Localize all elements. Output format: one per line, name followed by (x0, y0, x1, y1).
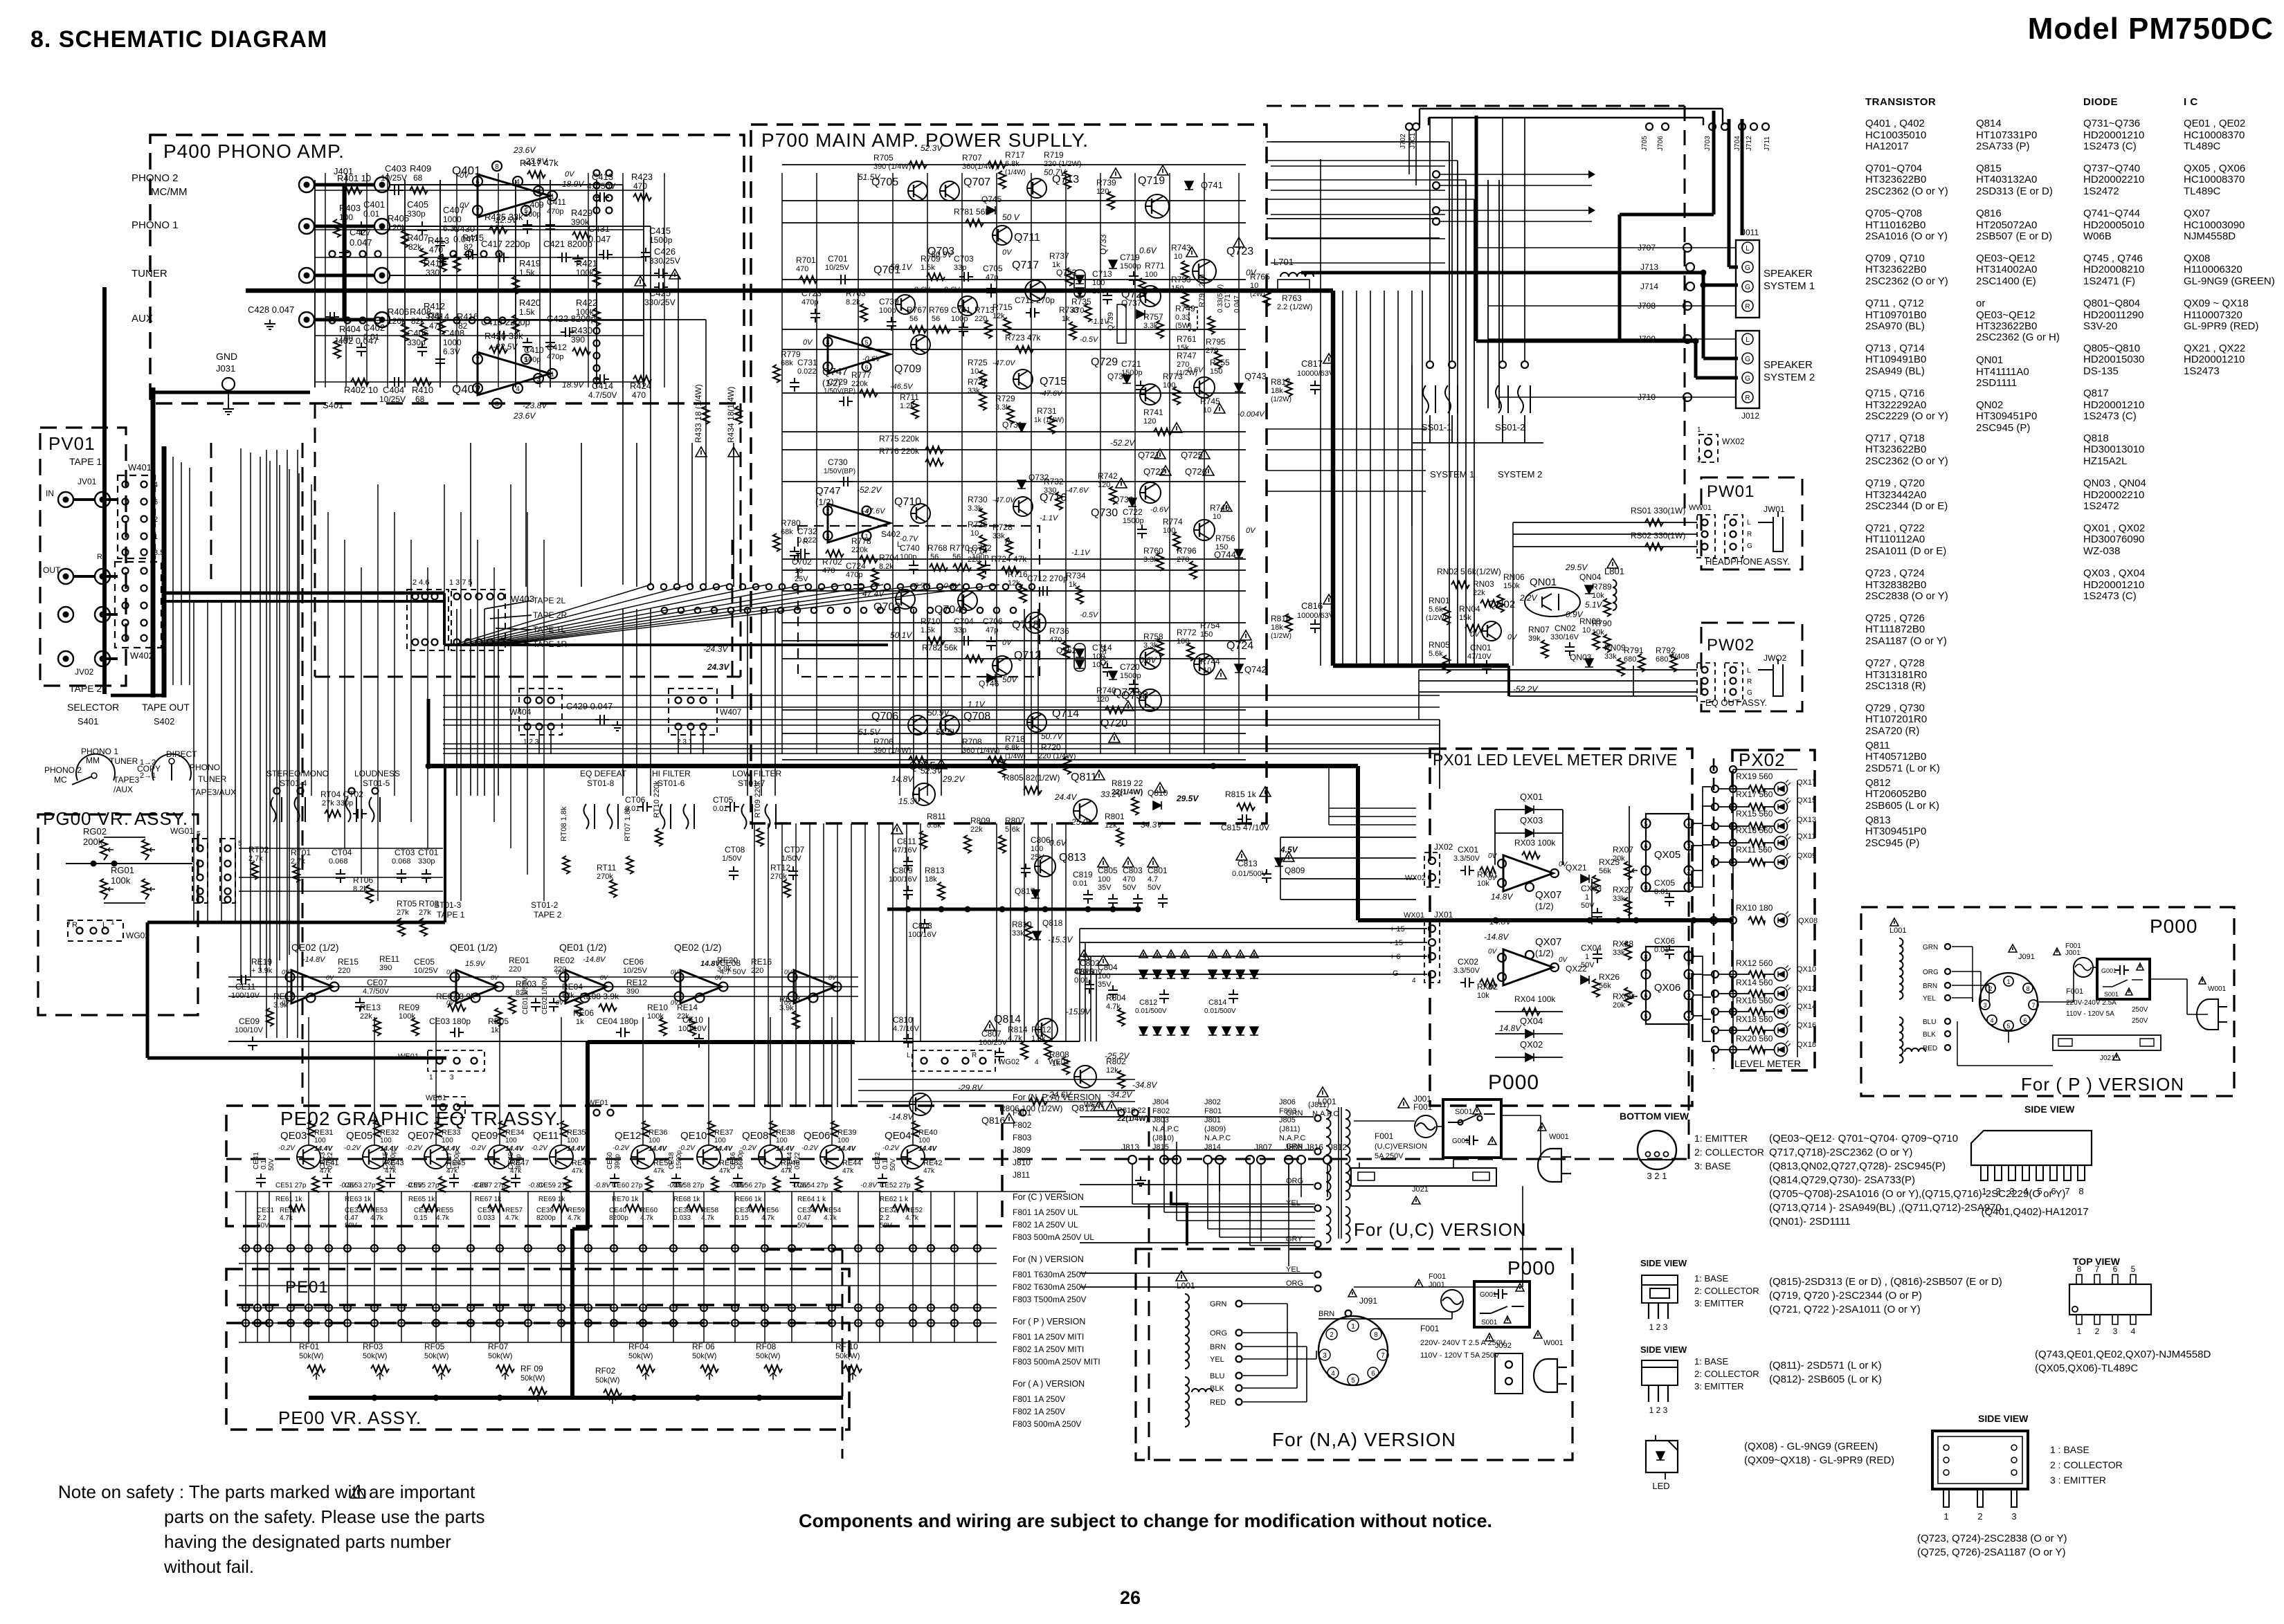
svg-text:F802: F802 (1152, 1107, 1170, 1115)
svg-text:0.01/500V: 0.01/500V (1204, 1007, 1236, 1015)
contact (832, 584, 837, 590)
wire (2008, 1031, 2009, 1043)
pin (1730, 971, 1737, 978)
jumper coil P (1905, 1048, 1925, 1052)
svg-text:/AUX: /AUX (114, 785, 133, 794)
svg-text:HT107331P0: HT107331P0 (1976, 129, 2037, 141)
svg-text:2: 2 (1977, 1511, 1982, 1522)
svg-text:R717: R717 (1005, 150, 1025, 160)
svg-text:0.1: 0.1 (260, 1160, 268, 1169)
svg-text:QX21: QX21 (1566, 863, 1587, 873)
contact (375, 251, 381, 257)
svg-text:1: 1 (1585, 953, 1589, 961)
svg-text:2: COLLECTOR: 2: COLLECTOR (1694, 1147, 1764, 1158)
svg-text:P000: P000 (1488, 1071, 1539, 1094)
contact (594, 378, 600, 384)
svg-text:C719: C719 (1120, 253, 1140, 262)
wire p400 inner (539, 173, 541, 387)
wire na (1243, 1387, 1297, 1389)
svg-text:GND: GND (216, 351, 237, 362)
svg-text:18k: 18k (1271, 623, 1283, 632)
svg-text:F001: F001 (2066, 987, 2083, 996)
junction (91, 861, 97, 867)
pin (141, 603, 147, 609)
svg-text:For ( P ) VERSION: For ( P ) VERSION (1013, 1317, 1085, 1326)
svg-text:14.8V: 14.8V (1499, 1023, 1521, 1033)
svg-text:PG00 VR. ASSY.: PG00 VR. ASSY. (43, 808, 188, 829)
svg-text:27k: 27k (419, 909, 431, 917)
wire ss01 up (1524, 118, 1525, 361)
wire toploop outer v (1419, 109, 1420, 125)
pin (700, 724, 707, 730)
pin (1683, 302, 1692, 310)
svg-text:ST01-2: ST01-2 (531, 900, 559, 910)
svg-text:2: COLLECTOR: 2: COLLECTOR (1694, 1369, 1759, 1379)
pin (454, 639, 460, 646)
svg-text:HC10008370: HC10008370 (2184, 129, 2245, 141)
svg-text:(QX08) - GL-9NG9 (GREEN): (QX08) - GL-9NG9 (GREEN) (1744, 1441, 1878, 1452)
contact (594, 195, 600, 201)
contact (648, 584, 653, 590)
contact (360, 318, 366, 324)
bus jack link (314, 183, 374, 187)
pin (1762, 123, 1769, 130)
wire p400 inner (588, 173, 589, 387)
svg-text:50k(W): 50k(W) (363, 1352, 387, 1360)
wire p700 out (1267, 199, 1474, 200)
pin (1730, 667, 1737, 673)
svg-text:220: 220 (751, 967, 763, 975)
pin (432, 639, 438, 646)
wire (1338, 1107, 1339, 1239)
svg-text:BRN: BRN (1923, 983, 1937, 990)
svg-text:HT309451P0: HT309451P0 (1865, 825, 1926, 837)
contact (778, 608, 783, 613)
box PX01 (1430, 749, 1692, 1106)
wire (239, 1263, 997, 1264)
pin (824, 531, 833, 540)
jack aux R (374, 312, 390, 327)
svg-text:470: 470 (1049, 636, 1062, 644)
wire (1296, 1351, 1298, 1388)
dashed stub (210, 443, 212, 581)
wire input (390, 226, 651, 227)
svg-text:TAPE 1: TAPE 1 (437, 910, 465, 920)
svg-text:2 : COLLECTOR: 2 : COLLECTOR (2050, 1459, 2123, 1470)
svg-text:TUNER: TUNER (109, 756, 138, 766)
wire j8 b (1288, 1164, 1289, 1197)
wire (315, 257, 644, 258)
svg-text:0V: 0V (460, 172, 470, 180)
wire (927, 173, 928, 754)
svg-text:HD20002210: HD20002210 (2083, 489, 2144, 501)
terminal block J021 P (2053, 1035, 2161, 1050)
svg-text:CE10: CE10 (682, 1015, 703, 1025)
bus wire px drop (1356, 766, 1360, 920)
pin (1685, 841, 1694, 850)
pin W401 (123, 533, 129, 540)
svg-text:RN01: RN01 (1429, 596, 1450, 605)
svg-text:Q712: Q712 (1014, 650, 1041, 662)
svg-text:RX10 180: RX10 180 (1736, 903, 1773, 913)
wire (490, 615, 532, 619)
svg-text:J802: J802 (1204, 1098, 1221, 1106)
diode Q741 (1185, 181, 1193, 190)
svg-text:0.1: 0.1 (882, 1160, 889, 1169)
svg-text:0V: 0V (446, 969, 455, 976)
wire (596, 180, 597, 387)
svg-text:1: 1 (550, 371, 554, 378)
svg-text:EQ DEFEAT: EQ DEFEAT (580, 769, 627, 778)
wire (892, 173, 894, 754)
svg-text:2SB507 (E or D): 2SB507 (E or D) (1976, 230, 2052, 242)
contact (766, 584, 772, 590)
pin (1236, 1399, 1242, 1405)
ground (1135, 1176, 1146, 1186)
svg-text:R707: R707 (962, 153, 982, 163)
svg-text:27k 330p: 27k 330p (322, 799, 353, 808)
svg-text:DIRECT: DIRECT (166, 749, 197, 759)
contact (1003, 584, 1008, 590)
wire (561, 1192, 562, 1342)
svg-text:F802 1A 250V: F802 1A 250V (1013, 1407, 1065, 1416)
svg-text:0.47: 0.47 (345, 1214, 359, 1222)
pin (1429, 925, 1435, 932)
dashed S401 bottom (315, 676, 741, 678)
wire (1719, 842, 1750, 843)
svg-text:C815 47/10V: C815 47/10V (1221, 823, 1269, 832)
contact (894, 608, 900, 613)
wire (1354, 1286, 1523, 1288)
svg-text:C729: C729 (828, 377, 848, 387)
box J011 (1736, 240, 1759, 318)
svg-text:CE02 1/50V: CE02 1/50V (541, 977, 549, 1014)
svg-text:CE31: CE31 (257, 1207, 274, 1214)
terminal2 L (1742, 334, 1753, 345)
wire (1957, 1021, 1958, 1066)
transistor Q745b (1194, 377, 1215, 398)
wire (239, 1248, 997, 1249)
svg-text:J811: J811 (1013, 1170, 1030, 1180)
switch box S001 NA (1474, 1281, 1530, 1327)
wire j8 b (1327, 1164, 1328, 1197)
pin (242, 1245, 249, 1252)
connector W403a (407, 590, 448, 650)
svg-text:PE02 GRAPHIC EQ TR ASSY.: PE02 GRAPHIC EQ TR ASSY. (280, 1108, 561, 1129)
svg-text:20k: 20k (1613, 1001, 1625, 1010)
svg-text:R719: R719 (1044, 150, 1064, 160)
svg-text:Q717,Q718)-2SC2362 (O or Y): Q717,Q718)-2SC2362 (O or Y) (1769, 1147, 1912, 1158)
wire (1764, 974, 1774, 975)
wire p700 out2 (1267, 237, 1440, 239)
wire input (390, 184, 623, 185)
pin (513, 176, 523, 186)
pin (307, 994, 316, 1003)
svg-text:1S2473: 1S2473 (2184, 365, 2220, 377)
wire eq drop (831, 1017, 833, 1145)
svg-text:PW01: PW01 (1707, 482, 1755, 501)
pin WG01 (197, 897, 203, 903)
svg-text:HI FILTER: HI FILTER (652, 769, 691, 778)
contact (944, 608, 950, 613)
svg-text:HEADPHONE ASSY.: HEADPHONE ASSY. (1705, 556, 1790, 567)
svg-text:8. SCHEMATIC DIAGRAM: 8. SCHEMATIC DIAGRAM (30, 26, 327, 53)
svg-text:120: 120 (1096, 188, 1109, 196)
wire qx06 row (1693, 974, 1711, 997)
svg-text:R411: R411 (424, 258, 444, 268)
pin (1458, 1120, 1463, 1125)
pin (141, 482, 147, 488)
svg-text:HC10003090: HC10003090 (2184, 219, 2245, 231)
svg-text:35V: 35V (1098, 980, 1112, 989)
pin (1315, 1183, 1321, 1189)
pin (676, 724, 682, 730)
svg-text:RE36: RE36 (649, 1129, 668, 1137)
svg-text:R768: R768 (927, 543, 948, 553)
svg-text:J813: J813 (1121, 1142, 1139, 1152)
pin (1685, 1012, 1694, 1021)
pin J8xx (1323, 1156, 1332, 1164)
wire mid drop2 (1024, 823, 1025, 1041)
svg-text:33k: 33k (993, 532, 1005, 540)
svg-text:R757: R757 (1143, 312, 1163, 322)
svg-text:QE04: QE04 (885, 1130, 911, 1142)
contact (950, 584, 956, 590)
svg-text:1/50V(BP): 1/50V(BP) (824, 468, 855, 475)
svg-text:4: 4 (1990, 1017, 1993, 1024)
svg-text:RX15 560: RX15 560 (1736, 809, 1773, 819)
svg-text:8: 8 (495, 401, 499, 408)
contact (1016, 584, 1022, 590)
svg-text:CT03: CT03 (395, 848, 415, 857)
wire tone drop (377, 484, 379, 901)
diode Q807 (1167, 970, 1175, 978)
diode Q802d (1222, 1027, 1231, 1035)
svg-text:10/25V: 10/25V (379, 394, 406, 404)
pin (1945, 969, 1950, 974)
svg-text:ORG: ORG (1210, 1329, 1227, 1338)
svg-text:10/25V: 10/25V (381, 173, 407, 183)
svg-text:R796: R796 (1177, 546, 1197, 556)
wire (1495, 1057, 1563, 1058)
svg-text:QX06: QX06 (1654, 982, 1680, 994)
svg-text:HD20015030: HD20015030 (2083, 354, 2144, 365)
svg-text:100p: 100p (972, 553, 988, 561)
bus jack link (314, 318, 374, 322)
contact (594, 208, 600, 214)
pin (1730, 531, 1737, 538)
svg-text:R701: R701 (796, 255, 816, 265)
svg-text:R429: R429 (571, 208, 592, 218)
contact (329, 318, 336, 324)
contact (469, 318, 475, 324)
svg-text:0.15: 0.15 (414, 1214, 428, 1222)
svg-text:3.3k: 3.3k (1143, 556, 1158, 564)
pin W403 (422, 594, 428, 600)
svg-text:R723 47k: R723 47k (1005, 333, 1041, 343)
svg-text:Q813: Q813 (1865, 814, 1891, 826)
wire (239, 1307, 997, 1308)
bus wire pv stub (105, 613, 118, 616)
LED QX08 (1775, 914, 1788, 927)
svg-text:Q733: Q733 (1098, 234, 1108, 255)
svg-text:F001: F001 (1429, 1272, 1446, 1281)
wire (791, 1192, 792, 1342)
svg-text:CX02: CX02 (1458, 957, 1478, 967)
bottom view chord (1639, 1159, 1675, 1160)
svg-text:R716: R716 (1008, 569, 1028, 579)
bus wire pg top (147, 921, 445, 924)
transistor Q713 (1027, 179, 1046, 198)
wire eq drop (770, 1017, 771, 1145)
wire band (443, 748, 1440, 749)
svg-text:TL489C: TL489C (2184, 140, 2221, 152)
wire tone drop (344, 540, 345, 848)
wire (1287, 1304, 1288, 1351)
svg-text:R410: R410 (412, 385, 433, 395)
svg-text:R733: R733 (1059, 305, 1079, 315)
wire left loop (240, 448, 242, 983)
pin (608, 1110, 614, 1116)
svg-text:-34.8V: -34.8V (1132, 1080, 1157, 1090)
pin (1433, 171, 1440, 178)
svg-text:2SC2229 (O or Y): 2SC2229 (O or Y) (1865, 410, 1948, 422)
svg-text:220: 220 (338, 967, 350, 975)
wire band (443, 719, 1440, 720)
contact (924, 584, 930, 590)
svg-text:1.5k: 1.5k (519, 307, 536, 317)
svg-text:R755: R755 (1210, 358, 1230, 367)
svg-text:(1/2): (1/2) (1535, 901, 1554, 911)
wire drop (498, 609, 499, 796)
wire tape loop (266, 450, 267, 1038)
svg-text:R773: R773 (1163, 372, 1183, 381)
bus wire jv stub2 (73, 575, 95, 578)
pot sym RF04 (637, 1365, 655, 1372)
svg-text:C731: C731 (797, 358, 817, 367)
wire j8 drop (1176, 1142, 1177, 1164)
jack JV02 out R (95, 651, 110, 666)
pin (1712, 859, 1719, 866)
svg-text:100: 100 (1098, 875, 1110, 884)
transistor Q711 (993, 226, 1012, 245)
bus wire right horiz (1333, 664, 1509, 668)
svg-text:QN04: QN04 (1579, 572, 1602, 582)
svg-text:RN09: RN09 (1604, 643, 1626, 653)
svg-text:QX07: QX07 (1535, 936, 1561, 948)
svg-text:50V: 50V (1123, 884, 1136, 892)
wire px in (1329, 816, 1416, 817)
svg-text:47k: 47k (653, 1167, 665, 1175)
svg-text:JX01: JX01 (1434, 910, 1453, 920)
wire (643, 180, 644, 387)
wire (1972, 947, 1973, 1002)
svg-text:R: R (1747, 531, 1752, 538)
svg-text:-0.2V: -0.2V (344, 1144, 361, 1152)
wire (315, 335, 644, 336)
pin (547, 191, 557, 201)
wire (235, 1191, 1066, 1192)
svg-text:1 2 3: 1 2 3 (1649, 1405, 1668, 1415)
svg-text:Q810: Q810 (1148, 788, 1168, 798)
svg-text:RE38: RE38 (776, 1129, 795, 1137)
wire toploop outer v2 (1722, 109, 1723, 125)
svg-text:C730: C730 (828, 457, 848, 467)
wire eq drop (499, 1017, 500, 1145)
svg-text:RT05: RT05 (397, 899, 417, 909)
svg-text:CE35: CE35 (414, 1207, 431, 1214)
svg-text:CE39: CE39 (536, 1207, 554, 1214)
wire qx (1439, 720, 1440, 789)
pin (451, 973, 460, 982)
svg-text:50k(W): 50k(W) (488, 1352, 512, 1360)
svg-text:J703: J703 (1704, 136, 1712, 151)
svg-text:DS-135: DS-135 (2083, 365, 2119, 377)
svg-text:5: 5 (2037, 1186, 2042, 1196)
svg-text:Q815: Q815 (1976, 163, 2002, 174)
wire input (390, 275, 678, 276)
wire (1719, 1011, 1750, 1012)
svg-text:F001: F001 (2065, 942, 2081, 950)
pin (1315, 1149, 1321, 1155)
pin (1648, 1303, 1649, 1319)
terminal L (1742, 242, 1753, 253)
svg-text:Q707: Q707 (963, 176, 990, 188)
svg-text:100: 100 (380, 1137, 392, 1144)
svg-text:TAPE 2: TAPE 2 (534, 910, 562, 920)
svg-text:WE01: WE01 (1084, 1101, 1105, 1109)
svg-text:R765: R765 (1250, 272, 1270, 282)
svg-text:34.3V: 34.3V (1141, 820, 1163, 830)
wire left loop (250, 453, 251, 977)
wire (954, 1192, 955, 1342)
svg-text:R404: R404 (339, 324, 361, 334)
svg-text:6.8k: 6.8k (1005, 744, 1019, 752)
bus wire spk horiz (1476, 340, 1696, 343)
wire p400 inner (345, 173, 347, 387)
switch contact (370, 797, 381, 822)
svg-text:Q704: Q704 (934, 604, 961, 616)
svg-text:4: 4 (1331, 1370, 1335, 1378)
svg-text:R815 1k: R815 1k (1225, 790, 1257, 799)
svg-text:RT10 220k: RT10 220k (653, 781, 661, 818)
wire (390, 275, 595, 276)
svg-text:HT110112A0: HT110112A0 (1865, 533, 1925, 545)
svg-text:RE39: RE39 (837, 1129, 857, 1137)
contact (727, 584, 732, 590)
svg-text:0V: 0V (1488, 852, 1498, 860)
svg-text:Q703: Q703 (927, 246, 954, 257)
svg-text:RT04 CT02: RT04 CT02 (320, 790, 363, 799)
svg-text:HT323442A0: HT323442A0 (1865, 489, 1926, 501)
svg-text:50k(W): 50k(W) (692, 1352, 716, 1360)
pin J8xx (1160, 1156, 1168, 1164)
contact (961, 608, 966, 613)
wire mid drop2 (1010, 823, 1011, 1041)
svg-text:15.9V: 15.9V (465, 960, 486, 968)
svg-text:1500p: 1500p (649, 235, 673, 245)
pin (141, 620, 147, 626)
IC QX06 (1646, 947, 1689, 1024)
svg-text:-47.6V: -47.6V (862, 507, 886, 516)
svg-text:2SC2362 (O or Y): 2SC2362 (O or Y) (1865, 275, 1948, 287)
svg-text:-34.2V: -34.2V (1107, 1090, 1132, 1100)
svg-text:68: 68 (413, 173, 423, 183)
svg-text:0.033: 0.033 (673, 1214, 691, 1222)
contact (594, 183, 600, 189)
svg-text:-52.2V: -52.2V (1110, 438, 1135, 448)
svg-text:R740: R740 (1096, 686, 1116, 695)
